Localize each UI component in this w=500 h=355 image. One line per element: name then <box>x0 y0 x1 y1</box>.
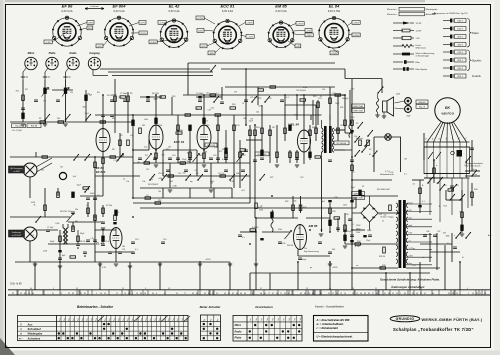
svg-text:GREY 204B: GREY 204B <box>353 110 363 112</box>
svg-text:G.Nr. Ib 99: G.Nr. Ib 99 <box>10 283 22 286</box>
svg-text:29: 29 <box>344 293 346 295</box>
svg-text:4: 4 <box>467 288 468 290</box>
svg-text:30k: 30k <box>322 89 325 91</box>
svg-text:Betriebsarten - Schalter: Betriebsarten - Schalter <box>77 305 114 309</box>
svg-text:67: 67 <box>376 293 378 295</box>
svg-text:15k: 15k <box>384 214 387 216</box>
svg-text:48: 48 <box>260 293 262 295</box>
svg-text:R7 50k: R7 50k <box>106 205 112 207</box>
svg-text:C16: C16 <box>213 155 216 157</box>
svg-text:R20: R20 <box>232 104 235 106</box>
svg-text:C19: C19 <box>161 155 164 157</box>
svg-text:0,1: 0,1 <box>135 249 138 251</box>
svg-text:C28: C28 <box>332 211 335 213</box>
svg-text:0,5M: 0,5M <box>230 181 234 183</box>
svg-text:300k: 300k <box>258 105 262 107</box>
svg-text:1: 1 <box>400 293 401 295</box>
svg-text:C35: C35 <box>464 165 467 167</box>
svg-text:R8: R8 <box>112 149 114 151</box>
svg-text:39: 39 <box>476 293 478 295</box>
svg-text:6,3V 0,76A: 6,3V 0,76A <box>328 10 341 13</box>
svg-text:18: 18 <box>168 288 170 290</box>
svg-text:37: 37 <box>260 288 262 290</box>
svg-text:braun: braun <box>409 202 414 204</box>
svg-text:M 9090-102: M 9090-102 <box>257 154 266 156</box>
svg-text:26: 26 <box>456 293 458 295</box>
svg-text:R12: R12 <box>460 212 463 214</box>
svg-text:R1a 1M: R1a 1M <box>15 126 22 128</box>
svg-text:Radio: Radio <box>70 52 77 55</box>
svg-text:1/4 W: 1/4 W <box>416 30 423 32</box>
svg-text:Wiedergabe: Wiedergabe <box>426 8 439 11</box>
svg-text:Mikro: Mikro <box>235 324 242 327</box>
svg-text:83: 83 <box>364 293 366 295</box>
svg-text:W1: W1 <box>25 89 28 91</box>
svg-text:Lichtnetz: Lichtnetz <box>90 5 98 8</box>
svg-text:C2 50μF: C2 50μF <box>196 93 204 95</box>
svg-text:R33: R33 <box>303 207 306 209</box>
svg-text:21: 21 <box>52 293 54 295</box>
svg-text:M2: M2 <box>456 185 459 187</box>
svg-text:8: 8 <box>252 293 253 295</box>
svg-text:Änderungen vorbehalten!: Änderungen vorbehalten! <box>390 285 425 289</box>
svg-text:70k: 70k <box>158 191 161 193</box>
svg-text:0,1: 0,1 <box>242 237 245 239</box>
svg-text:80: 80 <box>368 293 370 295</box>
svg-text:470k: 470k <box>158 125 162 127</box>
svg-text:Zweitlautspr.: Zweitlautspr. <box>12 231 22 234</box>
svg-text:77: 77 <box>280 293 282 295</box>
svg-text:3k: 3k <box>34 205 36 207</box>
svg-text:Hug. LS: Hug. LS <box>419 106 426 108</box>
svg-text:an ST/S-457: an ST/S-457 <box>12 235 22 237</box>
svg-text:180 V: 180 V <box>457 45 463 47</box>
svg-text:Regl.: Regl. <box>302 259 307 261</box>
svg-text:0,02: 0,02 <box>390 172 394 174</box>
svg-text:0,1: 0,1 <box>123 179 126 181</box>
svg-text:S2: S2 <box>356 123 358 125</box>
svg-text:15k: 15k <box>354 136 357 138</box>
svg-text:82: 82 <box>72 293 74 295</box>
svg-text:C14: C14 <box>172 155 175 157</box>
svg-text:10k: 10k <box>256 112 259 114</box>
svg-text:6,3V 0,2A: 6,3V 0,2A <box>114 10 125 13</box>
svg-text:0,02: 0,02 <box>379 214 383 216</box>
svg-text:42: 42 <box>320 293 322 295</box>
svg-text:GREY 204A: GREY 204A <box>353 105 363 108</box>
svg-text:EF 804: EF 804 <box>96 170 106 174</box>
svg-text:C37: C37 <box>437 231 440 233</box>
svg-text:60: 60 <box>236 293 238 295</box>
svg-text:14 52ge: 14 52ge <box>409 248 416 250</box>
svg-text:10k: 10k <box>294 201 297 203</box>
svg-text:79: 79 <box>116 293 118 295</box>
svg-text:Ausgang: Ausgang <box>88 52 100 55</box>
svg-text:28: 28 <box>352 288 354 290</box>
svg-text:a¹ = Arbeitschaltkont.: a¹ = Arbeitschaltkont. <box>317 322 345 326</box>
svg-text:Mikro: Mikro <box>28 52 35 55</box>
svg-text:R30: R30 <box>313 96 316 98</box>
svg-text:62: 62 <box>84 293 86 295</box>
svg-text:C30: C30 <box>334 197 337 199</box>
svg-text:8: 8 <box>145 288 146 290</box>
svg-text:59: 59 <box>176 293 178 295</box>
svg-text:Meter-Schalter: Meter-Schalter <box>200 305 222 309</box>
svg-text:Styroflex: Styroflex <box>472 60 482 63</box>
svg-text:9060-002: 9060-002 <box>418 102 425 104</box>
svg-text:R1: R1 <box>39 118 41 120</box>
svg-text:EL 84: EL 84 <box>291 123 299 127</box>
svg-text:0,1: 0,1 <box>422 201 425 203</box>
svg-text:35: 35 <box>304 293 306 295</box>
svg-text:R23: R23 <box>390 217 393 219</box>
svg-text:an TB/S: an TB/S <box>13 171 20 173</box>
svg-text:EL 42: EL 42 <box>96 242 104 246</box>
svg-text:R1b 1M: R1b 1M <box>31 126 38 128</box>
svg-text:81: 81 <box>228 293 230 295</box>
svg-text:C19: C19 <box>208 109 211 111</box>
svg-text:W4: W4 <box>205 152 208 154</box>
svg-text:0,1: 0,1 <box>286 97 289 99</box>
svg-text:+85V: +85V <box>88 22 94 24</box>
svg-text:1/2 W: 1/2 W <box>416 23 423 25</box>
svg-text:Regl. Aussteuerung: Regl. Aussteuerung <box>304 250 319 253</box>
svg-text:-48V: -48V <box>209 53 214 55</box>
svg-text:200: 200 <box>183 173 186 175</box>
svg-text:E 7/8: E 7/8 <box>355 246 359 248</box>
svg-text:EK: EK <box>445 106 450 110</box>
svg-text:12k: 12k <box>70 92 73 94</box>
svg-text:W6: W6 <box>170 181 173 183</box>
svg-text:0,25: 0,25 <box>351 89 355 91</box>
svg-text:5000: 5000 <box>90 193 94 195</box>
svg-text:0,5: 0,5 <box>447 243 450 245</box>
svg-text:18: 18 <box>306 288 308 290</box>
svg-text:Werte bei: Werte bei <box>387 8 397 11</box>
svg-text:0,5M: 0,5M <box>55 223 59 225</box>
svg-text:82: 82 <box>232 293 234 295</box>
svg-text:17: 17 <box>372 293 374 295</box>
svg-text:C15: C15 <box>178 173 181 175</box>
svg-text:21: 21 <box>375 288 377 290</box>
svg-text:30k: 30k <box>187 161 190 163</box>
svg-text:37: 37 <box>80 293 82 295</box>
svg-text:M1: M1 <box>444 185 447 187</box>
svg-text:Antr.: Antr. <box>488 234 492 237</box>
svg-text:R19: R19 <box>206 125 209 127</box>
svg-text:A = Abschaltrelais BV 998: A = Abschaltrelais BV 998 <box>316 318 350 322</box>
svg-text:WERKE-GMBH FÜRTH (BAY.): WERKE-GMBH FÜRTH (BAY.) <box>422 317 483 322</box>
svg-text:0,02: 0,02 <box>181 164 185 166</box>
svg-text:15k: 15k <box>352 171 355 173</box>
svg-text:97: 97 <box>420 293 422 295</box>
svg-text:77: 77 <box>268 293 270 295</box>
svg-text:ECC 81: ECC 81 <box>220 4 235 9</box>
svg-text:⊕—: ⊕— <box>19 337 24 340</box>
svg-text:510 V: 510 V <box>457 29 463 31</box>
svg-text:89: 89 <box>452 293 454 295</box>
svg-text:W4: W4 <box>31 235 34 237</box>
svg-text:C24: C24 <box>340 125 343 127</box>
svg-text:R11: R11 <box>142 125 145 127</box>
svg-text:R26: R26 <box>288 124 291 126</box>
svg-text:R32: R32 <box>285 201 288 203</box>
svg-text:C1 50μF: C1 50μF <box>120 93 128 95</box>
svg-text:Schnellauf: Schnellauf <box>28 327 42 331</box>
svg-text:C14: C14 <box>206 93 209 95</box>
svg-text:Radio: Radio <box>235 330 242 333</box>
svg-text:65: 65 <box>300 293 302 295</box>
svg-text:R23: R23 <box>268 98 271 100</box>
svg-text:+170V: +170V <box>197 18 204 20</box>
svg-text:R15: R15 <box>166 149 169 151</box>
svg-text:49: 49 <box>224 293 226 295</box>
svg-text:3k: 3k <box>196 109 198 111</box>
svg-text:BV 9060-002: BV 9060-002 <box>377 189 391 191</box>
svg-text:1k: 1k <box>320 96 322 98</box>
svg-text:46: 46 <box>240 293 242 295</box>
svg-text:ECC 81: ECC 81 <box>174 140 185 144</box>
svg-text:53: 53 <box>484 293 486 295</box>
svg-text:d. Einstellregler: d. Einstellregler <box>416 54 430 57</box>
svg-text:-1,9V: -1,9V <box>45 42 51 44</box>
svg-text:C1a 1,5/3pF: C1a 1,5/3pF <box>12 130 23 132</box>
svg-text:R23: R23 <box>443 206 446 208</box>
svg-text:132 V: 132 V <box>457 52 463 54</box>
svg-text:0,25: 0,25 <box>213 143 217 145</box>
svg-text:0,5M: 0,5M <box>259 210 263 212</box>
svg-text:EF 804: EF 804 <box>113 4 127 9</box>
svg-text:39: 39 <box>204 293 206 295</box>
svg-text:EF 86: EF 86 <box>62 4 73 9</box>
svg-text:C17 0,1: C17 0,1 <box>218 173 224 175</box>
svg-text:+67V: +67V <box>140 22 146 24</box>
svg-text:C10: C10 <box>163 239 166 241</box>
svg-text:265 V: 265 V <box>457 60 463 62</box>
svg-text:82: 82 <box>196 293 198 295</box>
svg-text:W7: W7 <box>145 155 148 157</box>
svg-text:+2,6V: +2,6V <box>247 36 253 38</box>
svg-text:1M: 1M <box>272 127 275 129</box>
svg-text:Schaltplan „Tonbandkoffer TK 7: Schaltplan „Tonbandkoffer TK 7/3D“ <box>393 327 474 332</box>
svg-text:35: 35 <box>76 288 78 290</box>
svg-text:265 V: 265 V <box>457 76 463 78</box>
svg-text:47: 47 <box>164 293 166 295</box>
svg-text:300k: 300k <box>446 235 450 237</box>
svg-text:C19: C19 <box>114 160 117 162</box>
svg-text:220V: 220V <box>350 117 355 119</box>
svg-text:54: 54 <box>216 293 218 295</box>
svg-text:E 80/10: E 80/10 <box>252 227 259 229</box>
svg-text:EL 84: EL 84 <box>329 4 340 9</box>
svg-text:13: 13 <box>122 288 124 290</box>
svg-text:73: 73 <box>340 293 342 295</box>
svg-text:R5: R5 <box>130 93 132 95</box>
svg-text:+9,4V: +9,4V <box>331 53 337 55</box>
svg-text:70k: 70k <box>60 167 63 169</box>
svg-text:W 5/7/8-457: W 5/7/8-457 <box>148 184 158 186</box>
svg-text:0,02: 0,02 <box>211 107 215 109</box>
svg-text:1k: 1k <box>382 220 384 222</box>
svg-text:C13: C13 <box>135 239 138 241</box>
svg-text:100k: 100k <box>343 205 347 207</box>
svg-text:59: 59 <box>264 293 266 295</box>
svg-text:0,5: 0,5 <box>413 184 416 186</box>
svg-text:25k: 25k <box>150 179 153 181</box>
svg-text:W4: W4 <box>57 118 60 120</box>
svg-text:6,3V 0,2A: 6,3V 0,2A <box>62 10 73 13</box>
svg-text:50k: 50k <box>75 209 78 211</box>
svg-text:4: 4 <box>288 293 289 295</box>
svg-text:R4: R4 <box>97 92 99 94</box>
svg-text:92: 92 <box>412 293 414 295</box>
svg-text:100V: 100V <box>198 30 204 32</box>
svg-text:265 V: 265 V <box>457 37 463 39</box>
svg-text:25: 25 <box>352 293 354 295</box>
svg-text:C39: C39 <box>412 265 415 267</box>
svg-text:C21 5000: C21 5000 <box>250 97 258 99</box>
svg-text:5000pF: 5000pF <box>342 98 349 100</box>
svg-text:R6: R6 <box>112 118 114 120</box>
svg-text:Aus: Aus <box>27 322 33 326</box>
svg-text:C19: C19 <box>242 155 245 157</box>
svg-text:71: 71 <box>212 293 214 295</box>
svg-text:1k: 1k <box>242 103 244 105</box>
svg-text:0,5M: 0,5M <box>172 185 176 187</box>
svg-text:53: 53 <box>396 293 398 295</box>
svg-text:84: 84 <box>312 293 314 295</box>
svg-text:470k: 470k <box>214 147 218 149</box>
svg-text:W 5/7/8 - 457: W 5/7/8 - 457 <box>60 211 71 213</box>
svg-text:34: 34 <box>152 293 154 295</box>
svg-text:96: 96 <box>416 293 418 295</box>
svg-text:+255V: +255V <box>205 259 211 261</box>
svg-text:0,1: 0,1 <box>303 103 306 105</box>
svg-text:Kassis - Kontaktfedern: Kassis - Kontaktfedern <box>315 305 344 309</box>
svg-text:R12: R12 <box>205 121 208 123</box>
svg-text:4: 4 <box>99 288 100 290</box>
svg-text:W3: W3 <box>67 89 70 91</box>
svg-text:31,5V: 31,5V <box>140 33 146 35</box>
svg-text:b1: b1 <box>369 154 371 156</box>
svg-text:44: 44 <box>32 293 34 295</box>
svg-text:Drucktasten: Drucktasten <box>255 305 273 309</box>
svg-text:U = Überbrückungsbuchsenk.: U = Überbrückungsbuchsenk. <box>317 334 353 338</box>
svg-text:C11: C11 <box>122 249 125 251</box>
svg-text:19 cm: 19 cm <box>472 169 477 171</box>
svg-text:Als Tonausgang: Als Tonausgang <box>11 167 23 170</box>
svg-text:Platte: Platte <box>235 337 242 340</box>
svg-text:+250V: +250V <box>246 22 253 24</box>
svg-text:69: 69 <box>140 293 142 295</box>
svg-text:10k: 10k <box>126 181 129 183</box>
svg-text:3k: 3k <box>439 206 441 208</box>
svg-text:6,3V 0,4A: 6,3V 0,4A <box>169 10 180 13</box>
svg-text:49: 49 <box>284 293 286 295</box>
svg-text:C4: C4 <box>130 135 132 137</box>
svg-text:S1: S1 <box>362 186 364 188</box>
svg-text:0,25: 0,25 <box>236 125 240 127</box>
svg-text:R16: R16 <box>158 200 161 202</box>
svg-text:C25: C25 <box>332 93 335 95</box>
svg-text:Motorgeschwindigkeit: Motorgeschwindigkeit <box>466 162 484 165</box>
svg-text:47: 47 <box>272 293 274 295</box>
svg-text:U: U <box>20 328 22 331</box>
svg-text:R16 50k: R16 50k <box>176 130 183 132</box>
svg-text:40: 40 <box>30 288 32 290</box>
svg-text:110V: 110V <box>356 232 361 234</box>
svg-text:40: 40 <box>329 288 331 290</box>
svg-text:+255V: +255V <box>297 23 304 25</box>
svg-text:ws: ws <box>356 265 358 267</box>
svg-text:81: 81 <box>12 293 14 295</box>
svg-text:r¹ = Ruhekontakt: r¹ = Ruhekontakt <box>317 326 338 330</box>
svg-text:R27: R27 <box>270 177 273 179</box>
svg-text:0,02: 0,02 <box>241 190 245 192</box>
svg-text:470k: 470k <box>278 229 282 231</box>
svg-text:C38: C38 <box>345 214 348 216</box>
svg-text:36: 36 <box>244 293 246 295</box>
svg-text:C6: C6 <box>86 205 88 207</box>
svg-text:C7 1μF: C7 1μF <box>47 227 54 229</box>
svg-text:Widerstand: Widerstand <box>416 46 426 49</box>
svg-text:EL 42: EL 42 <box>169 4 180 9</box>
svg-text:30k: 30k <box>122 246 125 248</box>
svg-text:0,5: 0,5 <box>195 170 198 172</box>
svg-text:0,5M: 0,5M <box>43 250 47 252</box>
svg-text:R39 50: R39 50 <box>379 256 385 258</box>
svg-text:90V: 90V <box>88 28 92 30</box>
svg-text:6,3V 0,3A: 6,3V 0,3A <box>222 10 233 13</box>
svg-text:Gezeichnete Schaltstellung: Au: Gezeichnete Schaltstellung: Aufnahme Pla… <box>380 277 440 281</box>
svg-text:C5: C5 <box>97 195 99 197</box>
svg-text:C24 5000pF: C24 5000pF <box>296 90 307 92</box>
svg-text:gemessen mit 220Ω/V Röhr. Typ: gemessen mit 220Ω/V Röhr. Typ 153 <box>437 12 468 15</box>
svg-text:0,5M: 0,5M <box>31 202 35 204</box>
svg-text:67: 67 <box>424 293 426 295</box>
svg-text:0,1: 0,1 <box>351 224 354 226</box>
svg-text:76: 76 <box>124 293 126 295</box>
svg-text:GRUNDIG: GRUNDIG <box>396 317 415 321</box>
svg-text:77: 77 <box>184 293 186 295</box>
svg-text:70k: 70k <box>43 101 46 103</box>
svg-text:R13: R13 <box>172 96 175 98</box>
svg-text:R31: R31 <box>340 107 343 109</box>
svg-text:0,5M: 0,5M <box>222 159 227 161</box>
svg-text:55: 55 <box>104 293 106 295</box>
svg-text:W5: W5 <box>75 221 78 223</box>
svg-text:3k: 3k <box>436 183 438 185</box>
svg-text:-11V: -11V <box>97 46 102 48</box>
svg-text:300: 300 <box>332 249 335 251</box>
svg-text:70: 70 <box>60 293 62 295</box>
svg-text:W8: W8 <box>199 155 202 157</box>
svg-text:20: 20 <box>100 293 102 295</box>
svg-text:+255V: +255V <box>353 35 360 37</box>
svg-text:5000: 5000 <box>236 173 240 175</box>
svg-text:Netzsch.: Netzsch. <box>356 137 364 140</box>
svg-text:C22: C22 <box>300 177 303 179</box>
svg-text:2: 2 <box>468 293 469 295</box>
svg-text:36: 36 <box>128 293 130 295</box>
svg-text:0,02: 0,02 <box>144 146 148 148</box>
svg-text:5000: 5000 <box>294 115 298 117</box>
svg-text:R40: R40 <box>474 189 477 191</box>
svg-text:95: 95 <box>336 293 338 295</box>
svg-text:9: 9 <box>96 293 97 295</box>
svg-text:30k: 30k <box>210 183 213 185</box>
svg-text:R12: R12 <box>219 151 222 153</box>
